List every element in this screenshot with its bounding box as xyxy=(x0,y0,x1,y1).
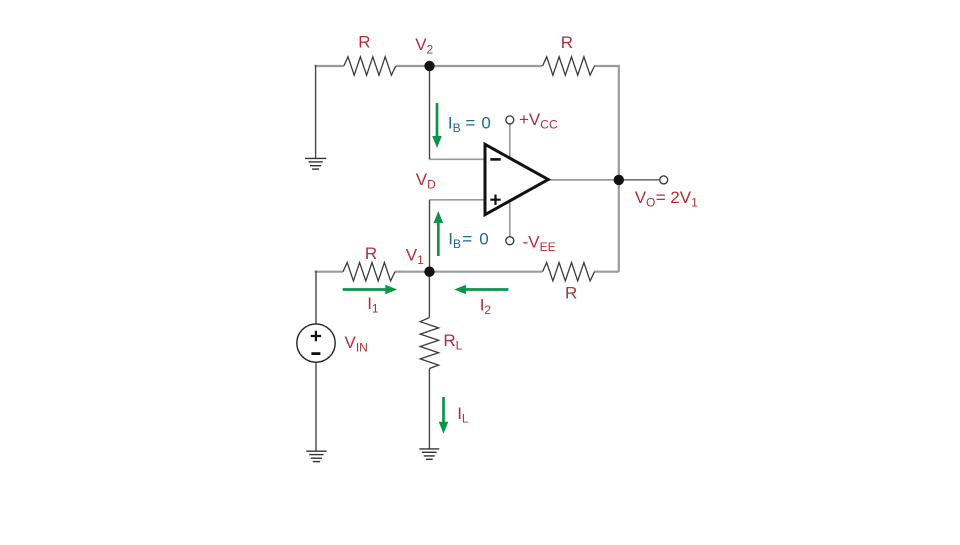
label VO = 2V1 xyxy=(635,188,698,210)
resistor R (bottom-left) xyxy=(343,263,395,281)
wire left vertical to ground xyxy=(315,65,317,158)
arrow IL (downward) xyxy=(439,397,449,434)
wire top rail right segment xyxy=(594,65,619,67)
voltage source minus symbol xyxy=(311,352,320,355)
op-amp U1 triangle xyxy=(485,144,548,214)
label node V1 xyxy=(406,246,424,268)
node Vout junction dot xyxy=(614,175,624,185)
wire RL down to ground xyxy=(428,369,430,449)
label IB = 0 (top, blue) xyxy=(448,114,491,136)
wire non-inverting input (y=200) xyxy=(430,199,485,201)
resistor R (top-left) xyxy=(344,57,396,75)
label VIN xyxy=(345,333,368,355)
ground (below VIN) xyxy=(306,451,326,461)
resistor R (bottom-right feedback) xyxy=(543,263,595,281)
wire bottom rail middle segment through node V1 xyxy=(395,271,542,273)
op-amp non-inverting input plus symbol xyxy=(490,195,500,205)
arrow I1 (rightward) xyxy=(343,285,398,295)
wire node V2 down to inverting input xyxy=(429,66,431,159)
wire op-amp output xyxy=(549,179,619,181)
wire inverting input (y=159) xyxy=(430,158,485,160)
terminal +VCC open circle xyxy=(506,116,514,124)
label R (bottom-left) xyxy=(365,244,377,263)
ground (below RL) xyxy=(419,449,439,459)
wire bottom rail left segment xyxy=(315,271,344,273)
wire right vertical rail xyxy=(618,65,620,272)
ground (top-left) xyxy=(305,158,326,169)
node V2 junction dot xyxy=(424,61,434,71)
wire non-inverting input down to node V1 xyxy=(429,200,431,272)
resistor R (top-right) xyxy=(543,57,595,75)
label R (bottom-right) xyxy=(565,284,577,303)
wire bottom rail corner down to VIN source xyxy=(315,271,317,324)
wire power rail +VCC to -VEE (behind op-amp) xyxy=(509,124,511,236)
op-amp inverting input minus symbol xyxy=(490,158,500,161)
label IB = 0 (bottom, blue) xyxy=(448,230,488,252)
wire VIN source down to ground xyxy=(315,362,317,451)
label -VEE xyxy=(523,233,556,255)
label R (top-right) xyxy=(561,33,573,52)
arrow IB=0 (top, downward) xyxy=(432,103,442,148)
resistor RL (vertical load) xyxy=(420,318,438,369)
voltage source plus symbol xyxy=(311,331,321,341)
label VD xyxy=(416,170,436,192)
label I2 xyxy=(480,296,492,318)
label node V2 xyxy=(415,35,433,57)
svg-text:R: R xyxy=(561,33,573,52)
voltage source VIN circle xyxy=(297,324,335,362)
terminal output open circle xyxy=(660,176,668,184)
terminal -VEE open circle xyxy=(506,237,514,245)
label RL xyxy=(443,331,462,353)
node V1 junction dot xyxy=(424,267,434,277)
wire top rail middle segment through node V2 xyxy=(396,65,542,67)
svg-text:R: R xyxy=(358,32,370,51)
arrow IB=0 (bottom, upward) xyxy=(434,211,444,256)
arrow I2 (leftward) xyxy=(454,285,508,295)
label R (top-left) xyxy=(358,32,370,51)
svg-text:R: R xyxy=(365,244,377,263)
label I1 xyxy=(367,294,379,316)
wire top rail left segment xyxy=(315,65,344,67)
svg-text:R: R xyxy=(565,284,577,303)
label +VCC xyxy=(519,110,558,132)
wire bottom rail right segment xyxy=(594,271,619,273)
label IL xyxy=(457,404,469,426)
wire output node to output terminal xyxy=(619,179,660,181)
wire node V1 down to RL xyxy=(428,272,430,318)
